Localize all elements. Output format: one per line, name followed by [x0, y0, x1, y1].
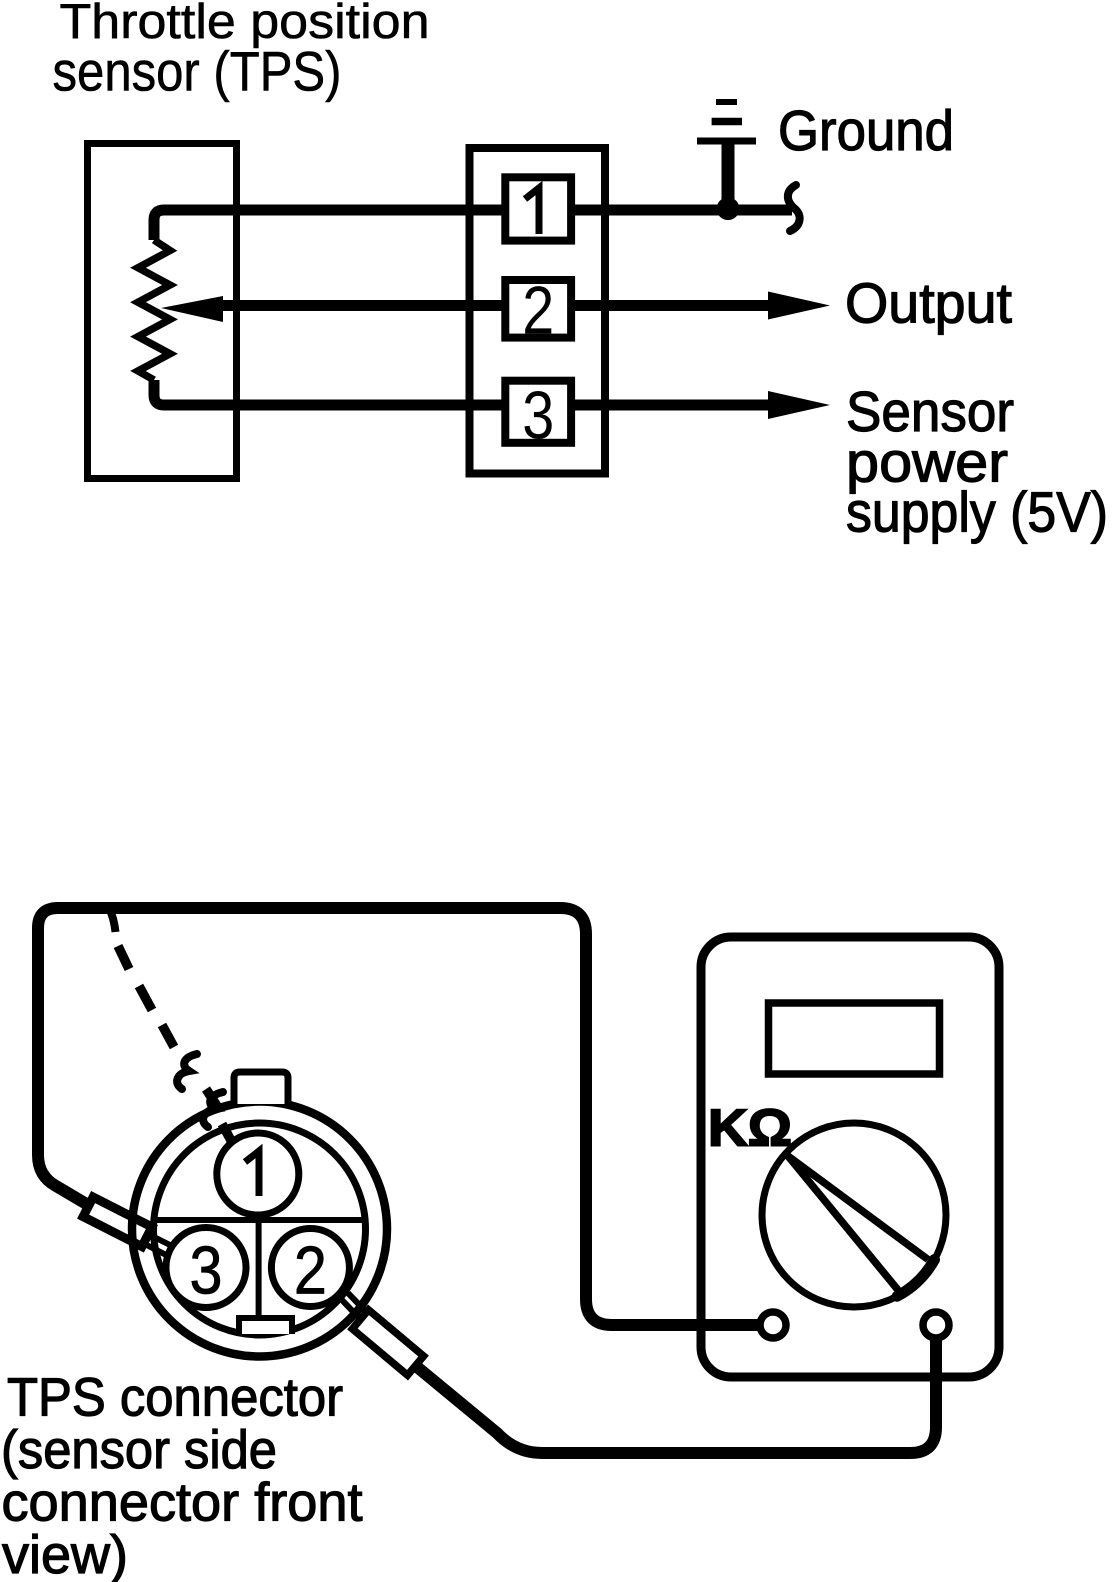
- svg-text:Output: Output: [845, 272, 1012, 336]
- svg-text:(sensor side: (sensor side: [1, 1420, 277, 1480]
- svg-text:2: 2: [294, 1233, 327, 1309]
- svg-text:3: 3: [190, 1233, 223, 1309]
- svg-text:connector front: connector front: [2, 1473, 363, 1533]
- svg-text:view): view): [2, 1525, 128, 1582]
- svg-text:sensor (TPS): sensor (TPS): [53, 40, 342, 103]
- svg-text:Ground: Ground: [778, 99, 954, 163]
- svg-text:TPS connector: TPS connector: [7, 1368, 343, 1428]
- svg-text:2: 2: [522, 273, 554, 349]
- svg-text:supply (5V): supply (5V): [846, 481, 1108, 545]
- svg-text:KΩ: KΩ: [708, 1100, 792, 1158]
- svg-text:3: 3: [522, 378, 554, 454]
